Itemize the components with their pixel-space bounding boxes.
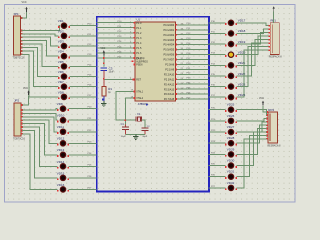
svg-text:VCC: VCC	[259, 97, 264, 100]
svg-text:P0.1/AD1: P0.1/AD1	[163, 29, 174, 32]
wire VD26 to RP2 pin2	[237, 118, 267, 120]
wire MCU pin 6 P1.5	[96, 47, 135, 49]
svg-text:P1.0: P1.0	[136, 22, 142, 25]
wire VD1 to border	[70, 25, 97, 27]
LED VD10	[60, 118, 65, 123]
svg-text:P0.3/AD3: P0.3/AD3	[163, 39, 174, 42]
svg-text:P1.4: P1.4	[136, 42, 142, 45]
svg-text:VD19: VD19	[238, 40, 246, 44]
wire border to VD28	[209, 142, 226, 144]
wire VD24 to RP1 pin8	[237, 50, 269, 97]
svg-text:VCC: VCC	[100, 48, 105, 50]
svg-text:P1.3: P1.3	[136, 37, 142, 40]
power VCC above JP2	[27, 90, 29, 92]
wire MCU pin 33 P0.6/AD6	[175, 54, 208, 56]
LED VD9	[60, 106, 65, 111]
wire VD5 to border	[70, 65, 97, 67]
wire VD29 to RP2 pin5	[237, 129, 267, 155]
wire MCU pin 5 P1.4	[96, 42, 135, 44]
LED VD31	[228, 174, 233, 179]
svg-text:P2.2/A10: P2.2/A10	[164, 73, 175, 76]
wire to EA pin	[132, 60, 134, 62]
svg-text:P0.7/AD7: P0.7/AD7	[163, 59, 174, 62]
wire MCU pin 27 P2.6/A14	[175, 93, 208, 95]
svg-text:P0.2/AD2: P0.2/AD2	[163, 34, 174, 37]
wire border to VD32	[209, 187, 226, 189]
svg-text:VD16: VD16	[57, 183, 65, 187]
svg-text:P2.1/A9: P2.1/A9	[165, 68, 175, 71]
svg-text:P1.5: P1.5	[136, 47, 142, 50]
wire VCC to JP1 pin1	[22, 12, 27, 18]
wire MCU pin 4 P1.3	[96, 37, 135, 39]
wire VD20 to RP1 pin4	[237, 36, 269, 54]
svg-text:TDBT0C16: TDBT0C16	[13, 57, 26, 60]
wire VD18 to RP1 pin2	[237, 29, 269, 33]
svg-text:VCC: VCC	[22, 1, 27, 4]
wire MCU pin 23 P2.2/A10	[175, 73, 208, 75]
svg-text:VD5: VD5	[58, 60, 64, 64]
wire JP2 pin3 to VD10	[22, 113, 58, 120]
wire border to VD29	[209, 153, 226, 155]
ground crystal	[135, 134, 137, 136]
resistor R1	[103, 80, 105, 87]
wire border to VD31	[209, 176, 226, 178]
wire border to VD23	[209, 86, 226, 88]
wire border to VD25	[209, 109, 226, 111]
svg-text:P2.4/A12: P2.4/A12	[164, 83, 175, 86]
wire JP1 pin8 to VD7	[22, 51, 59, 87]
svg-text:P1.1: P1.1	[136, 27, 142, 30]
svg-text:R1: R1	[108, 87, 112, 91]
wire JP1 pin6 to VD5	[22, 44, 59, 66]
wire VD2 to border	[70, 35, 97, 37]
LED VD22	[228, 73, 233, 78]
LED VD14	[60, 164, 65, 169]
ground rail caps	[125, 133, 145, 135]
wire MCU pin 21 P2.0/A8	[175, 63, 208, 65]
svg-text:VD17: VD17	[238, 19, 246, 23]
svg-text:JP2: JP2	[14, 99, 20, 103]
svg-text:VD6: VD6	[58, 70, 64, 74]
power VCC above RP1	[273, 6, 275, 8]
svg-text:ALE/PROG: ALE/PROG	[136, 60, 148, 63]
wire VD13 to border	[69, 154, 97, 156]
svg-text:TDBT0C16: TDBT0C16	[13, 138, 26, 141]
wire border to VD17	[209, 22, 226, 24]
wire border to VD24	[209, 96, 226, 98]
wire VD11 to border	[69, 131, 97, 133]
svg-text:VD28: VD28	[227, 136, 235, 140]
wire JP2 pin4 to VD11	[22, 117, 58, 132]
LED VD4	[61, 54, 66, 59]
svg-text:VD7: VD7	[58, 80, 64, 84]
svg-text:X1: X1	[137, 112, 141, 116]
LED VD11	[60, 129, 65, 134]
svg-text:XTAL2: XTAL2	[136, 97, 144, 100]
wire JP2 pin8 to VD15	[22, 130, 58, 177]
wire VD32 to RP2 pin8	[237, 139, 267, 188]
svg-text:VD8: VD8	[58, 90, 64, 94]
LED VD6	[61, 74, 66, 79]
wire MCU pin 25 P2.4/A12	[175, 83, 208, 85]
wire R1 to ground	[103, 96, 105, 101]
LED VD13	[60, 152, 65, 157]
wire MCU pin 36 P0.3/AD3	[175, 39, 208, 41]
capacitor C3	[100, 67, 107, 69]
svg-text:VD26: VD26	[227, 114, 235, 118]
wire MCU pin 32 P0.7/AD7	[175, 58, 208, 60]
svg-text:VD9: VD9	[57, 102, 63, 106]
wire VCC to RP2 common pin	[263, 106, 267, 112]
svg-text:P0.6/AD6: P0.6/AD6	[163, 54, 174, 57]
wire MCU pin 8 P1.7	[96, 57, 135, 59]
wire VD23 to RP1 pin7	[237, 47, 269, 87]
wire JP1 pin7 to VD6	[22, 48, 59, 77]
wire VD9 to border	[69, 108, 97, 110]
sheet border (blue box)	[97, 17, 209, 192]
wire VD7 to border	[70, 86, 97, 88]
LED VD2	[61, 33, 66, 38]
svg-text:VD31: VD31	[227, 170, 235, 174]
wire VD3 to border	[70, 45, 97, 47]
LED VD27	[228, 129, 233, 134]
wire VD12 to border	[69, 142, 97, 144]
LED VD19	[228, 41, 233, 46]
svg-text:P0.0/AD0: P0.0/AD0	[163, 24, 174, 27]
wire MCU pin 37 P0.2/AD2	[175, 34, 208, 36]
wire VD21 to RP1 pin5	[237, 40, 269, 66]
wire MCU pin 35 P0.4/AD4	[175, 44, 208, 46]
LED VD5	[61, 64, 66, 69]
wire MCU pin 28 P2.7/A15	[175, 98, 208, 100]
wire crystal right to C2	[142, 120, 145, 127]
wire border to VD19	[209, 43, 226, 45]
svg-text:EA/VPP: EA/VPP	[136, 57, 145, 60]
svg-text:P0.4/AD4: P0.4/AD4	[163, 44, 174, 47]
svg-text:P2.0/A8: P2.0/A8	[165, 64, 175, 67]
svg-text:P2.6/A14: P2.6/A14	[164, 93, 175, 96]
wire VCC to JP2 pin1	[22, 95, 29, 105]
wire VD16 to border	[69, 188, 97, 190]
LED VD23	[228, 84, 233, 89]
LED VD15	[60, 175, 65, 180]
outer frame	[5, 5, 296, 203]
wire JP2 pin7 to VD14	[22, 127, 58, 166]
LED VD17	[228, 20, 233, 25]
LED VD8	[61, 94, 66, 99]
wire VD27 to RP2 pin3	[237, 122, 267, 132]
wire border to VD30	[209, 165, 226, 167]
wire JP2 pin5 to VD12	[22, 120, 58, 143]
wire VD30 to RP2 pin6	[237, 132, 267, 166]
wire VD31 to RP2 pin7	[237, 135, 267, 176]
wire VD8 to border	[70, 96, 97, 98]
wire VD17 to RP1 pin1	[237, 23, 269, 26]
wire JP1 pin2 to VD1	[22, 26, 60, 31]
svg-text:10uF: 10uF	[109, 72, 115, 74]
svg-text:VD12: VD12	[57, 137, 65, 141]
svg-text:VD2: VD2	[58, 29, 64, 33]
LED VD20	[228, 52, 233, 57]
power VCC for reset	[103, 50, 105, 52]
LED VD21	[228, 63, 233, 68]
wire VD6 to border	[70, 76, 97, 78]
wire VD28 to RP2 pin4	[237, 125, 267, 143]
svg-text:VD30: VD30	[227, 159, 235, 163]
svg-text:VD15: VD15	[57, 171, 65, 175]
wire VCC down to C3	[103, 55, 105, 66]
wire VD22 to RP1 pin6	[237, 43, 269, 76]
LED VD7	[61, 84, 66, 89]
svg-text:VD18: VD18	[238, 29, 246, 33]
svg-text:P2.3/A11: P2.3/A11	[164, 78, 175, 81]
LED VD26	[228, 118, 233, 123]
LED VD12	[60, 141, 65, 146]
svg-text:C3: C3	[109, 66, 113, 70]
wire border to VD22	[209, 75, 226, 77]
blue marker below MCU	[146, 104, 148, 106]
svg-text:P2.7/A15: P2.7/A15	[164, 98, 175, 101]
LED VD30	[228, 163, 233, 168]
ground below R1	[103, 101, 105, 103]
wire VD4 to border	[70, 55, 97, 57]
wire VD25 to RP2 pin1	[237, 110, 267, 115]
svg-text:VD13: VD13	[57, 148, 65, 152]
LED VD25	[228, 107, 233, 112]
LED VD24	[228, 95, 233, 100]
svg-text:VD11: VD11	[57, 125, 65, 129]
wire border to VD18	[209, 32, 226, 34]
svg-text:RESPACK-8: RESPACK-8	[268, 144, 282, 147]
wire VCC to RP1	[273, 12, 275, 23]
LED VD28	[228, 141, 233, 146]
wire XTAL1 from MCU	[116, 91, 136, 120]
wire border to VD21	[209, 64, 226, 66]
svg-text:VCC: VCC	[23, 87, 28, 90]
wire VD10 to border	[69, 119, 97, 121]
node RST junction	[103, 78, 105, 80]
svg-text:VD3: VD3	[58, 39, 64, 43]
node crossing mark	[124, 119, 126, 121]
LED VD29	[228, 152, 233, 157]
wire MCU pin 7 P1.6	[96, 52, 135, 54]
wire JP2 pin9 to VD16	[22, 134, 58, 190]
svg-text:P1.2: P1.2	[136, 32, 142, 35]
svg-text:PSEN: PSEN	[136, 65, 143, 67]
svg-text:VD10: VD10	[57, 114, 65, 118]
wire MCU pin 34 P0.5/AD5	[175, 49, 208, 51]
power VCC above JP1	[25, 7, 27, 9]
svg-text:RST: RST	[136, 79, 141, 82]
svg-text:VD32: VD32	[227, 181, 235, 185]
svg-text:VD27: VD27	[227, 125, 235, 129]
wire MCU pin 3 P1.2	[96, 32, 135, 34]
svg-text:VD4: VD4	[58, 50, 64, 54]
wire JP1 pin4 to VD3	[22, 37, 59, 46]
svg-text:VD29: VD29	[227, 147, 235, 151]
wire XTAL2 from MCU	[125, 98, 135, 127]
wire JP1 pin3 to VD2	[22, 34, 59, 36]
LED VD16	[60, 187, 65, 192]
power VCC above RP2	[262, 101, 264, 103]
svg-text:P2.5/A13: P2.5/A13	[164, 88, 175, 91]
svg-text:P0.5/AD5: P0.5/AD5	[163, 49, 174, 52]
wire VD14 to border	[69, 165, 97, 167]
LED VD1	[61, 23, 66, 28]
wire MCU pin 22 P2.1/A9	[175, 68, 208, 70]
wire MCU pin 38 P0.1/AD1	[175, 29, 208, 31]
wire MCU pin 24 P2.3/A11	[175, 78, 208, 80]
svg-text:30pF: 30pF	[121, 136, 127, 138]
wire MCU pin 39 P0.0/AD0	[175, 24, 208, 26]
svg-text:VD25: VD25	[227, 103, 235, 107]
LED VD32	[228, 185, 233, 190]
wire VD19 to RP1 pin3	[237, 33, 269, 44]
wire border to VD20	[209, 54, 226, 56]
svg-text:RP2: RP2	[268, 108, 274, 112]
wire border to VD27	[209, 131, 226, 133]
wire MCU pin 26 P2.5/A13	[175, 88, 208, 90]
LED VD3	[61, 43, 66, 48]
LED VD18	[228, 31, 233, 36]
wire JP1 pin9 to VD8	[22, 54, 59, 97]
wire VD15 to border	[69, 177, 97, 179]
svg-text:VD14: VD14	[57, 160, 65, 164]
svg-text:P1.6: P1.6	[136, 52, 142, 55]
svg-text:30pF: 30pF	[142, 136, 148, 138]
svg-text:VD1: VD1	[58, 19, 64, 23]
svg-text:XTAL1: XTAL1	[136, 91, 144, 94]
svg-text:RESPACK-8: RESPACK-8	[269, 56, 283, 59]
wire JP2 pin6 to VD13	[22, 124, 58, 155]
wire JP2 pin2 to VD9	[22, 109, 58, 110]
wire MCU pin 2 P1.1	[96, 27, 135, 29]
wire RST to MCU	[104, 79, 134, 81]
wire JP1 pin5 to VD4	[22, 41, 59, 57]
wire border to VD26	[209, 120, 226, 122]
wire MCU pin 1 P1.0	[96, 22, 135, 24]
